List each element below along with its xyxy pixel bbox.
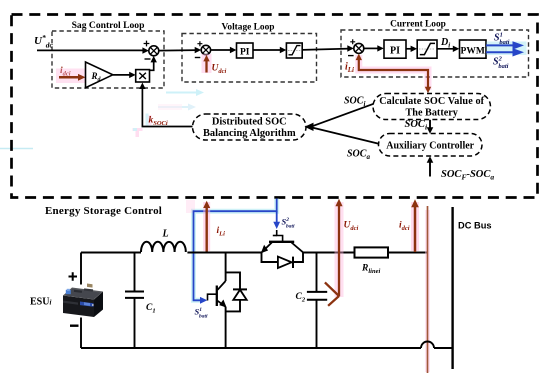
wire gain to multiplier	[113, 74, 131, 76]
summing junction voltage	[201, 45, 210, 54]
diode D1 branch top	[226, 272, 240, 289]
pink glow Udci arrow	[335, 202, 344, 297]
summer sign +	[197, 41, 202, 46]
top rail wire mid	[187, 252, 261, 254]
capacitor C1 bottom lead	[134, 298, 136, 348]
distributed SOC block (rounded dashed)	[193, 114, 307, 140]
resistor Rlinei	[355, 247, 389, 257]
svg-text:Distributed SOC: Distributed SOC	[212, 117, 287, 128]
svg-text:Voltage Loop: Voltage Loop	[221, 23, 274, 33]
battery plus sign	[69, 272, 78, 281]
wire multiplier to sag summer	[150, 61, 154, 70]
svg-text:The Battery: The Battery	[406, 108, 458, 119]
current loop dashed box	[341, 30, 529, 77]
ghost cyan arrow artifact 2	[158, 104, 196, 111]
limiter block current	[417, 40, 437, 58]
multiplier block x	[136, 70, 150, 82]
wire PI to limiter	[253, 49, 282, 51]
summer sign -	[145, 58, 151, 60]
wire SOC calc to distributed (diagonal)	[312, 104, 374, 127]
pink glow Udci	[202, 54, 212, 73]
voltage loop dashed box	[182, 34, 317, 83]
svg-text:DC Bus: DC Bus	[458, 221, 492, 231]
pink glow iLi feedback path	[359, 55, 428, 90]
battery ESUi body	[63, 284, 103, 318]
pink glow line current feeder	[425, 210, 430, 372]
aux controller block (rounded dashed)	[379, 134, 483, 157]
svg-text:Auxiliary Controller: Auxiliary Controller	[386, 141, 474, 152]
capacitor C2 bottom lead	[316, 300, 318, 348]
capacitor C2 top lead	[316, 253, 318, 292]
gain amp Rd triangle	[86, 62, 113, 88]
blue wire PWM output S2	[486, 51, 514, 53]
svg-text:Current Loop: Current Loop	[390, 20, 446, 30]
transistor Q1 IGBT symbol	[216, 286, 218, 307]
wire PI to limiter	[406, 48, 413, 50]
diode D2 branch right	[293, 253, 303, 263]
red arrow idci into gain	[59, 76, 80, 79]
arrowhead into distributed box	[305, 123, 314, 131]
inductor L	[141, 242, 186, 252]
svg-text:Balancing Algorithm: Balancing Algorithm	[203, 128, 296, 139]
ghost smudge near kSOCi	[146, 114, 152, 126]
svg-text:SOCi: SOCi	[405, 119, 428, 132]
wire limiter to PWM	[437, 48, 455, 50]
sag loop dashed box	[52, 31, 164, 88]
svg-text:PI: PI	[240, 48, 250, 58]
wire voltage summer to PI	[211, 49, 232, 51]
transistor Q1 emitter lead	[225, 307, 227, 348]
capacitor C1 plates	[125, 291, 144, 293]
svg-text:Calculate SOC Value of: Calculate SOC Value of	[379, 96, 484, 107]
svg-text:PWM: PWM	[461, 46, 485, 56]
summer sign -	[195, 57, 201, 59]
svg-text:Sag Control Loop: Sag Control Loop	[72, 20, 145, 31]
capacitor C2 plates	[307, 291, 327, 293]
cyan glow PWM outputs	[487, 42, 527, 56]
SOC calc block (rounded dashed)	[373, 94, 491, 120]
summing junction current	[354, 43, 364, 53]
red arrow Udci feedback	[205, 59, 207, 73]
blue arrow into S1 gate	[200, 297, 207, 304]
wire SOC calc to aux controller	[429, 120, 431, 130]
pink glow iLi arrow	[203, 202, 210, 251]
blue branch to S2 gate	[276, 211, 278, 224]
diode D2 cathode bar	[292, 257, 294, 268]
svg-text:SOCF-SOCa: SOCF-SOCa	[441, 169, 494, 182]
transistor Q2 gate lead	[277, 230, 283, 242]
wire limiter to current summer	[302, 49, 349, 50]
wire hop over feeder	[421, 342, 434, 349]
red arrow idci measurement	[414, 206, 417, 253]
pink glow near gate wire corner	[186, 200, 195, 213]
PI block current	[384, 40, 406, 58]
red arrow Udci measurement (with hook across C2)	[338, 204, 340, 296]
summer sign -	[348, 55, 354, 57]
svg-text:SOCi: SOCi	[344, 96, 365, 109]
wire current summer to PI	[364, 47, 379, 49]
capacitor C1 top lead	[134, 253, 136, 292]
diode D1 cathode bar	[233, 288, 247, 290]
battery positive lead	[80, 253, 82, 285]
blue wire PWM output S1	[486, 44, 514, 46]
battery minus sign	[70, 325, 79, 327]
bottom rail wire	[81, 347, 421, 349]
svg-text:L: L	[162, 229, 169, 240]
wire kSOCi from distributed algorithm to multiplier	[142, 88, 192, 127]
transistor Q1 collector lead	[225, 253, 227, 282]
summer sign +	[144, 41, 150, 47]
top rail wire to resistor right	[388, 252, 428, 254]
top rail wire left	[81, 252, 141, 254]
transistor Q1 gate lead	[208, 294, 217, 300]
blue gate drive wire from controller	[194, 199, 277, 301]
ghost cyan line artifact left margin	[0, 148, 33, 150]
wire aux controller to distributed (diagonal)	[312, 128, 379, 144]
diode D2 triangle	[278, 257, 292, 268]
PI block voltage	[237, 43, 254, 58]
outer dashed box (control section frame)	[12, 15, 538, 198]
transistor Q2 IGBT symbol (horizontal)	[269, 241, 294, 243]
svg-text:PI: PI	[390, 46, 400, 57]
red arrow iLi measurement	[205, 206, 207, 252]
diode D2 branch (antiparallel, horizontal)	[262, 253, 278, 263]
wire sag summer to voltage summer	[159, 49, 197, 52]
top rail wire right of switch	[303, 252, 355, 254]
svg-text:Energy Storage Control: Energy Storage Control	[45, 205, 162, 217]
limiter block voltage	[286, 43, 302, 58]
red wire iLi feedback to summer and to SOC calc	[359, 59, 428, 89]
ghost cyan arrow artifact 1	[166, 89, 204, 96]
summing junction sag	[149, 46, 159, 56]
pink glow idci arrow	[56, 69, 87, 84]
diode D1 triangle	[233, 290, 246, 300]
cyan glow gate drive wire	[194, 199, 277, 301]
battery negative lead	[80, 318, 82, 349]
diode D1 branch bottom	[226, 300, 240, 312]
ghost mark T	[133, 128, 143, 137]
wire SOCF-SOCa into aux controller	[429, 160, 431, 176]
summer sign +	[350, 39, 355, 44]
svg-text:ESUi: ESUi	[30, 297, 51, 308]
wire: input to sag summer	[37, 49, 144, 51]
pink glow idci arrow	[411, 202, 419, 251]
PWM block	[460, 40, 487, 58]
wire line current feeder (red)	[427, 206, 429, 373]
DC bus bar	[451, 207, 453, 369]
